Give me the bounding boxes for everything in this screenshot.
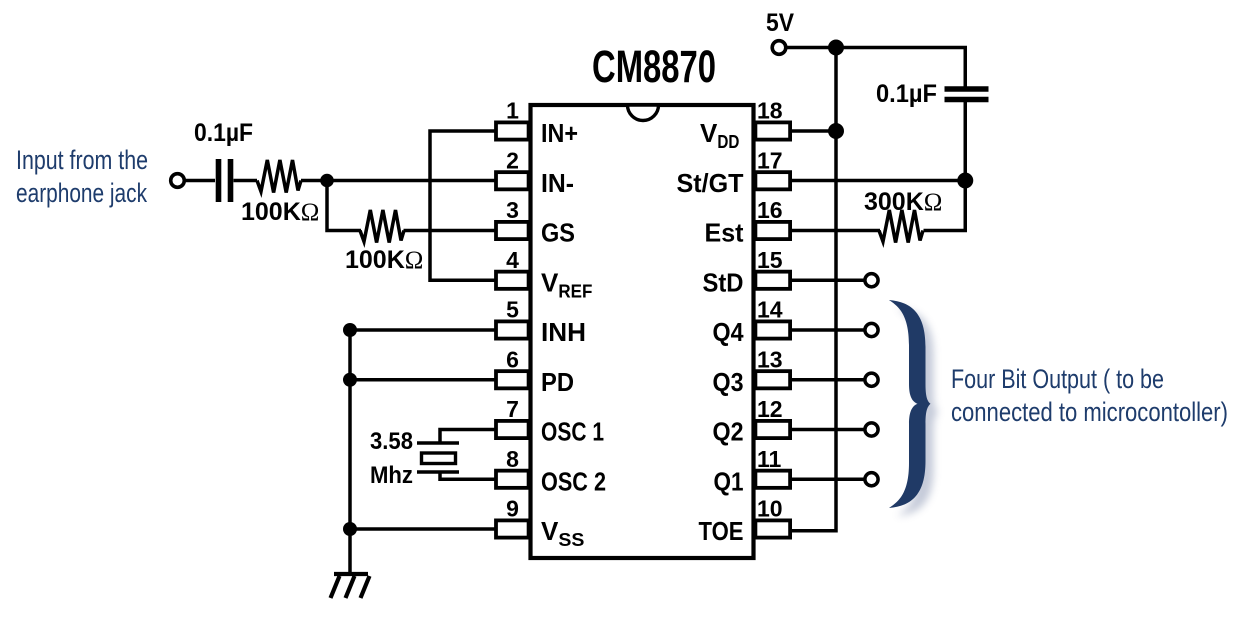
pin 11 box bbox=[755, 471, 790, 488]
svg-text:IN-: IN- bbox=[541, 168, 574, 198]
svg-text:GS: GS bbox=[541, 218, 575, 248]
pin 14 number bbox=[757, 297, 783, 323]
svg-text:3.58: 3.58 bbox=[370, 428, 413, 455]
terminal Q3 bbox=[865, 373, 878, 386]
pin label Q4 bbox=[713, 317, 744, 347]
pin 12 number bbox=[757, 396, 783, 422]
svg-text:8: 8 bbox=[506, 446, 519, 472]
svg-text:Est: Est bbox=[705, 218, 744, 248]
wire INH rail bbox=[350, 328, 495, 574]
svg-text:2: 2 bbox=[506, 147, 519, 173]
pin 3 box bbox=[496, 222, 529, 239]
pin 18 number bbox=[757, 98, 783, 124]
pin label Q1 bbox=[714, 466, 744, 496]
wire bypass cap down to StGT node bbox=[924, 100, 966, 231]
pin 13 box bbox=[755, 371, 790, 388]
pin 4 number bbox=[506, 247, 519, 273]
wire IN+ to Vref vertical tie bbox=[430, 129, 495, 282]
pin 15 number bbox=[757, 247, 783, 273]
wire VDD rail vertical bbox=[790, 48, 836, 531]
wire 5V to bypass cap bbox=[786, 48, 967, 87]
pin label VREF bbox=[541, 267, 592, 301]
svg-text:300KΩ: 300KΩ bbox=[864, 188, 942, 216]
wire StGT pin17 bbox=[790, 179, 967, 183]
svg-text:17: 17 bbox=[757, 147, 783, 173]
pin 16 number bbox=[757, 197, 783, 223]
node PD bbox=[343, 373, 357, 387]
svg-text:7: 7 bbox=[506, 396, 519, 422]
node VDD pin18 bbox=[828, 123, 844, 139]
brace shadow bbox=[897, 308, 939, 516]
wire input to capacitor bbox=[185, 179, 216, 183]
node 5V rail bbox=[828, 40, 844, 56]
svg-text:0.1µF: 0.1µF bbox=[876, 80, 937, 108]
5V terminal circle bbox=[772, 41, 786, 55]
svg-text:Q2: Q2 bbox=[713, 417, 744, 447]
pin 17 box bbox=[755, 172, 790, 189]
svg-text:100KΩ: 100KΩ bbox=[345, 246, 423, 274]
pin 3 number bbox=[506, 197, 519, 223]
pin 17 number bbox=[757, 147, 783, 173]
terminal Q2 bbox=[865, 423, 878, 436]
capacitor C1 0.1uF input (plates) bbox=[219, 159, 231, 202]
pin 11 number bbox=[757, 446, 782, 472]
svg-text:5: 5 bbox=[506, 297, 519, 323]
pin 2 number bbox=[506, 147, 519, 173]
svg-text:12: 12 bbox=[757, 396, 783, 422]
crystal Y1 3.58MHz bbox=[417, 443, 459, 472]
node VSS bbox=[343, 522, 357, 536]
svg-text:TOE: TOE bbox=[699, 516, 744, 546]
pin label Est bbox=[705, 218, 744, 248]
svg-text:IN+: IN+ bbox=[541, 118, 578, 148]
resistor R2 100K feedback bbox=[360, 210, 404, 243]
pin 10 box bbox=[755, 520, 790, 537]
node junction input bbox=[320, 174, 334, 188]
svg-text:PD: PD bbox=[541, 367, 574, 397]
wire resistor R1 to IN- pin bbox=[301, 179, 495, 183]
pin 13 number bbox=[757, 346, 783, 372]
pin label VDD bbox=[700, 118, 739, 152]
wire StD pin15 to terminal bbox=[790, 279, 865, 283]
pin 14 box bbox=[755, 321, 790, 338]
pin 8 box bbox=[496, 471, 529, 488]
svg-text:connected to microcontoller): connected to microcontoller) bbox=[951, 397, 1228, 427]
input terminal circle bbox=[171, 174, 185, 188]
label Input from the earphone jack bbox=[16, 145, 148, 208]
svg-text:OSC 1: OSC 1 bbox=[541, 417, 604, 447]
pin 18 box bbox=[755, 122, 790, 139]
pin 5 box bbox=[496, 321, 529, 338]
svg-text:15: 15 bbox=[757, 247, 783, 273]
terminal StD bbox=[865, 274, 878, 287]
pin 2 box bbox=[496, 172, 529, 189]
wire capacitor to resistor R1 bbox=[234, 179, 258, 183]
resistor R1 100K series bbox=[257, 160, 301, 193]
IC title CM8870 bbox=[592, 41, 716, 92]
svg-text:6: 6 bbox=[506, 346, 519, 372]
label 100K series bbox=[241, 198, 319, 226]
wire VDD pin18 to rail bbox=[790, 129, 836, 133]
pin 7 box bbox=[496, 421, 529, 438]
svg-text:CM8870: CM8870 bbox=[592, 41, 716, 92]
svg-text:16: 16 bbox=[757, 197, 783, 223]
svg-text:4: 4 bbox=[506, 247, 519, 273]
pin 15 box bbox=[755, 272, 790, 289]
svg-text:Q1: Q1 bbox=[714, 466, 744, 496]
capacitor C2 0.1uF bypass (plates) bbox=[945, 89, 989, 100]
svg-text:Input from the: Input from the bbox=[16, 145, 148, 175]
pin label Q2 bbox=[713, 417, 744, 447]
pin 6 box bbox=[496, 371, 529, 388]
pin label VSS bbox=[541, 516, 584, 550]
pin 4 box bbox=[496, 272, 529, 289]
pin 8 number bbox=[506, 446, 519, 472]
crystal Y1 wires bbox=[440, 428, 495, 481]
label 300K bbox=[864, 188, 942, 216]
wire Q1 pin11 to terminal bbox=[790, 478, 865, 482]
svg-text:18: 18 bbox=[757, 98, 783, 124]
ground bbox=[331, 574, 370, 598]
svg-text:INH: INH bbox=[541, 317, 586, 347]
pin label INH bbox=[541, 317, 586, 347]
label 0.1uF input bbox=[194, 119, 253, 147]
pin label TOE bbox=[699, 516, 744, 546]
label 3.58 Mhz bbox=[370, 428, 413, 489]
svg-text:5V: 5V bbox=[766, 9, 794, 37]
node INH bbox=[343, 323, 357, 337]
pin label StD bbox=[703, 267, 744, 297]
pin label GS bbox=[541, 218, 575, 248]
pin 6 number bbox=[506, 346, 519, 372]
svg-text:14: 14 bbox=[757, 297, 783, 323]
pin 16 box bbox=[755, 222, 790, 239]
pin label IN+ bbox=[541, 118, 578, 148]
wire Q2 pin12 to terminal bbox=[790, 428, 865, 432]
pin 5 number bbox=[506, 297, 519, 323]
pin label PD bbox=[541, 367, 574, 397]
pin 9 number bbox=[506, 496, 519, 522]
pin 9 box bbox=[496, 520, 529, 537]
pin 7 number bbox=[506, 396, 519, 422]
pin label OSC 2 bbox=[541, 466, 606, 496]
svg-text:OSC 2: OSC 2 bbox=[541, 466, 606, 496]
svg-text:Q4: Q4 bbox=[713, 317, 744, 347]
svg-text:11: 11 bbox=[757, 446, 782, 472]
svg-text:1: 1 bbox=[506, 98, 519, 124]
svg-text:0.1µF: 0.1µF bbox=[194, 119, 253, 147]
label 0.1uF bypass bbox=[876, 80, 937, 108]
pin 12 box bbox=[755, 421, 790, 438]
svg-text:13: 13 bbox=[757, 346, 783, 372]
svg-text:StD: StD bbox=[703, 267, 744, 297]
label Four Bit Output annotation bbox=[951, 364, 1228, 427]
svg-text:9: 9 bbox=[506, 496, 519, 522]
wire resistor R2 to GS pin bbox=[404, 229, 496, 233]
pin label Q3 bbox=[713, 367, 744, 397]
terminal Q4 bbox=[865, 323, 878, 336]
label 100K feedback bbox=[345, 246, 423, 274]
svg-text:earphone jack: earphone jack bbox=[16, 178, 147, 208]
brace four bit output bbox=[889, 300, 931, 508]
pin 1 box bbox=[496, 122, 529, 139]
svg-text:100KΩ: 100KΩ bbox=[241, 198, 319, 226]
svg-text:Mhz: Mhz bbox=[370, 462, 413, 489]
wire Q3 pin13 to terminal bbox=[790, 378, 865, 382]
svg-text:10: 10 bbox=[757, 496, 783, 522]
pin label OSC 1 bbox=[541, 417, 604, 447]
IC U1 CM8870 body bbox=[531, 105, 754, 558]
wire junction down to feedback resistor bbox=[327, 181, 361, 231]
svg-text:St/GT: St/GT bbox=[677, 168, 744, 198]
pin label IN- bbox=[541, 168, 574, 198]
pin label St/GT bbox=[677, 168, 744, 198]
pin 10 number bbox=[757, 496, 783, 522]
wire Est pin16 to resistor R3 bbox=[790, 229, 880, 233]
svg-text:3: 3 bbox=[506, 197, 519, 223]
svg-text:Four Bit Output ( to be: Four Bit Output ( to be bbox=[951, 364, 1164, 394]
svg-text:Q3: Q3 bbox=[713, 367, 744, 397]
wire Q4 pin14 to terminal bbox=[790, 328, 865, 332]
pin 1 number bbox=[506, 98, 519, 124]
label 5V bbox=[766, 9, 794, 37]
resistor R3 300K bbox=[879, 210, 923, 243]
node StGT cap junction bbox=[957, 173, 973, 189]
terminal Q1 bbox=[865, 473, 878, 486]
